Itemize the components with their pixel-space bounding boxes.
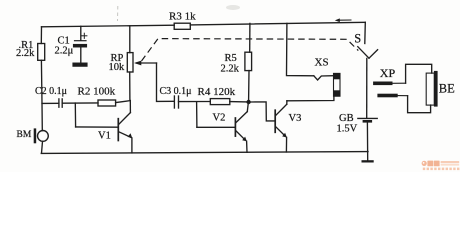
- V3 emitter arrowhead: [282, 133, 287, 138]
- svg-text:2.2k: 2.2k: [221, 63, 240, 74]
- V1 emitter arrowhead: [128, 133, 133, 138]
- resistor R5: [245, 23, 252, 100]
- svg-text:R2 100k: R2 100k: [78, 86, 116, 98]
- switch S contact tick: [369, 50, 378, 59]
- svg-text:XS: XS: [315, 56, 329, 68]
- mechanical link dashed line: [142, 39, 359, 61]
- transistor V2: [197, 102, 249, 153]
- wire R2 to node: [116, 101, 131, 103]
- wire switch to battery: [366, 58, 368, 117]
- svg-text:C2 0.1μ: C2 0.1μ: [35, 86, 67, 97]
- switch S blade: [358, 47, 369, 59]
- wire top rail right segment: [190, 22, 365, 25]
- svg-text:S: S: [354, 32, 361, 46]
- microphone BM: [34, 128, 49, 153]
- wire C2 input: [42, 102, 59, 104]
- scan artifact smudge: [226, 5, 240, 10]
- svg-text:2.2μ: 2.2μ: [55, 46, 74, 57]
- wire left trunk lower: [40, 60, 43, 130]
- battery GB: [358, 118, 377, 162]
- svg-text:GB: GB: [339, 113, 354, 124]
- capacitor C1: [73, 26, 87, 66]
- svg-text:BE: BE: [439, 81, 455, 95]
- svg-text:10k: 10k: [109, 62, 126, 73]
- svg-text:R3 1k: R3 1k: [169, 10, 196, 22]
- svg-text:V2: V2: [213, 113, 226, 124]
- node B junction dot: [246, 100, 250, 104]
- svg-text:V1: V1: [98, 130, 111, 141]
- wire supply to jack tip: [287, 23, 314, 75]
- wire node B to V3 base: [251, 102, 275, 121]
- wire bottom rail: [41, 152, 368, 154]
- wire R4 to node B: [230, 101, 247, 103]
- svg-text:1.5V: 1.5V: [337, 123, 358, 134]
- switch S fixed stub: [364, 22, 367, 43]
- svg-text:R5: R5: [225, 53, 237, 64]
- svg-text:C3 0.1μ: C3 0.1μ: [160, 86, 192, 97]
- V2 emitter arrowhead: [242, 137, 247, 142]
- capacitor C3: [174, 96, 178, 108]
- resistor R1: [38, 44, 45, 61]
- resistor R3: [174, 23, 190, 29]
- transistor V1: [75, 101, 132, 153]
- wire C2 to R2: [62, 102, 98, 104]
- wire top rail left segment: [42, 25, 175, 27]
- plug XP bottom prong: [377, 94, 430, 113]
- scan artifact dashes: [117, 6, 119, 21]
- capacitor C2: [59, 99, 62, 107]
- svg-text:XP: XP: [380, 66, 396, 80]
- socket XS: [334, 73, 341, 96]
- current arrow on top rail: [335, 18, 352, 22]
- svg-text:R4 120k: R4 120k: [198, 86, 236, 98]
- earphone BE: [426, 71, 437, 107]
- wire left trunk upper: [40, 27, 42, 44]
- transistor V3: [275, 101, 287, 152]
- svg-text:V3: V3: [289, 113, 302, 124]
- potentiometer RP: [127, 26, 156, 101]
- RP wiper arrowhead: [134, 61, 141, 66]
- watermark logo: [422, 161, 460, 171]
- resistor R2: [98, 100, 116, 106]
- svg-text:2.2k: 2.2k: [16, 48, 35, 59]
- wire RP wiper riser: [157, 63, 175, 101]
- resistor R4: [210, 99, 230, 105]
- wire C3 to R4: [179, 101, 211, 103]
- plug XP top prong: [373, 64, 432, 85]
- svg-text:BM: BM: [17, 130, 32, 140]
- wire V3 collector to jack sleeve: [287, 96, 334, 101]
- jack switch contact notch: [314, 76, 334, 80]
